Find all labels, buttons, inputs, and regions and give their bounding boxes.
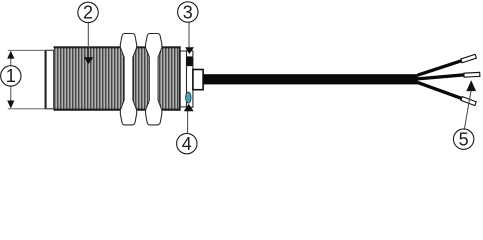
cable — [203, 74, 418, 84]
callout circle 4 — [177, 133, 197, 153]
leader arrow 2 — [84, 57, 94, 64]
dimension arrow up — [7, 51, 14, 59]
callout circle 5 — [453, 129, 473, 150]
wire W3 bottom — [418, 82, 463, 98]
wire W1 top — [418, 61, 463, 76]
leader line 4 — [187, 111, 189, 134]
leader arrow 4 — [184, 104, 194, 111]
cable gland connector — [193, 70, 203, 90]
ferrule F1 — [461, 54, 476, 63]
leader line 2 — [87, 23, 89, 59]
callout circle 2 — [78, 2, 98, 23]
dimension line vertical — [10, 55, 12, 66]
ferrule F2 — [464, 72, 480, 77]
hex nut N2 — [146, 34, 162, 125]
dimension extension line top — [8, 49, 54, 51]
callout circle 3 — [178, 2, 198, 23]
leader arrow 3 — [185, 47, 194, 54]
ferrule F3 — [461, 97, 476, 106]
leader line 5 — [464, 91, 471, 129]
svg-text:5: 5 — [459, 129, 469, 149]
svg-text:2: 2 — [83, 3, 93, 23]
svg-text:4: 4 — [182, 134, 192, 154]
rear housing section — [180, 51, 193, 107]
leader line 3 — [188, 22, 190, 48]
leader arrow 5 — [466, 80, 476, 91]
LED indicator — [186, 92, 191, 103]
hex nut N1 — [120, 34, 136, 125]
wire W2 middle — [418, 75, 465, 79]
svg-text:1: 1 — [6, 66, 16, 86]
sensor threaded body — [54, 46, 181, 110]
dimension extension line bottom — [8, 108, 54, 110]
svg-text:3: 3 — [183, 2, 193, 22]
black feature on end plate — [186, 56, 193, 66]
callout circle 1 — [1, 66, 21, 86]
sensing face cap — [45, 50, 54, 109]
dimension arrow down — [7, 101, 14, 109]
